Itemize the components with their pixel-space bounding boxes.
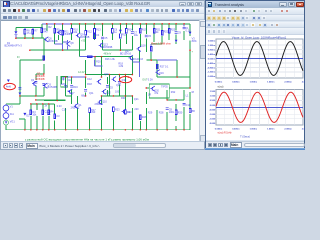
resistor C3 [54, 114, 56, 118]
transistor Q15 [112, 77, 116, 82]
resistor R23 [113, 107, 115, 111]
transistor Q9 [76, 33, 80, 38]
capacitor C10 [183, 103, 186, 105]
resistor R9 [54, 29, 56, 33]
wire: mid rail upper [95, 56, 132, 58]
svg-text:0.000m: 0.000m [208, 58, 215, 60]
svg-text:1.500m: 1.500m [267, 82, 274, 84]
svg-text:100: 100 [115, 91, 120, 94]
svg-text:BC546B: BC546B [80, 36, 90, 39]
wire: q6-q8 links [55, 40, 68, 50]
transistor Q19 [155, 70, 159, 75]
resistor R33 [150, 46, 152, 50]
svg-text:v(out): v(out) [218, 86, 224, 89]
resistor R8 [24, 30, 26, 34]
capacitor C13 [145, 35, 148, 37]
resistor R30 [175, 110, 177, 114]
svg-text:1.600m: 1.600m [208, 40, 215, 42]
wire: top rail left (lead colour) [42, 23, 71, 25]
resistor R26 [139, 115, 141, 119]
svg-text:2.5m: 2.5m [302, 129, 305, 131]
svg-text:C5: C5 [148, 35, 152, 38]
capacitor C5 [101, 37, 104, 39]
svg-text:0.000m: 0.000m [215, 129, 222, 131]
left vertical scrollbar [199, 20, 205, 141]
resistor R25 [168, 29, 170, 33]
svg-text:BC546B: BC546B [48, 40, 58, 43]
svg-text:TIP35: TIP35 [161, 85, 168, 88]
green net value labels [17, 40, 194, 82]
resistor R7 [32, 30, 34, 34]
svg-text:2.5m: 2.5m [302, 82, 305, 84]
svg-text:8R: 8R [192, 110, 195, 113]
right bottom bar [206, 141, 304, 148]
svg-text:-1.200m: -1.200m [207, 72, 215, 74]
svg-text:-0.400m: -0.400m [207, 62, 215, 65]
svg-text:1.200m: 1.200m [208, 45, 215, 47]
resistor R13 [94, 29, 96, 33]
svg-text:R25: R25 [171, 29, 176, 32]
right window bottom blue border [205, 148, 305, 151]
left caption buttons [179, 2, 186, 7]
annotation ellipse (mid node) [119, 77, 131, 83]
transistor Q13 [99, 43, 103, 48]
svg-text:BZX84B-6P7+3: BZX84B-6P7+3 [4, 45, 22, 48]
svg-text:C3: C3 [56, 115, 60, 118]
svg-text:80%: 80% [192, 40, 198, 43]
svg-text:2.000m: 2.000m [284, 82, 291, 84]
svg-text:47u: 47u [26, 32, 31, 35]
capacitor C2b [47, 113, 50, 115]
right title bar [206, 1, 304, 8]
resistor R6 [41, 28, 43, 32]
svg-text:VG1: VG1 [10, 120, 16, 123]
svg-text:R2: R2 [48, 26, 52, 29]
svg-text:+35: +35 [81, 40, 86, 43]
capacitor C20 [42, 83, 45, 85]
resistor R10 [71, 29, 73, 33]
svg-text:C9: C9 [178, 32, 182, 35]
svg-text:2N5401: 2N5401 [71, 106, 80, 109]
transistor Q8 [66, 41, 70, 46]
junctions (net nodes) [15, 23, 191, 131]
left title text [10, 1, 150, 6]
svg-text:BD140-16: BD140-16 [132, 58, 144, 61]
transistor Q6 [57, 30, 61, 35]
resistor R20 [94, 34, 96, 38]
capacitor C15 [18, 87, 21, 89]
wire: vertical nets 2 [16, 24, 190, 114]
source IG1 [3, 113, 9, 119]
transistor Q10 [98, 100, 102, 105]
svg-text:0.500m: 0.500m [232, 129, 239, 131]
svg-text:1.000: 1.000 [210, 96, 216, 98]
svg-text:IG1: IG1 [10, 113, 15, 116]
svg-text:68p: 68p [81, 94, 86, 97]
svg-text:R14: R14 [128, 29, 133, 32]
svg-text:R15: R15 [122, 34, 127, 37]
capacitor C17 [118, 81, 121, 83]
waveform [216, 92, 303, 122]
svg-text:Q16: Q16 [104, 73, 109, 76]
plot client area [206, 35, 304, 141]
transistor Q20 [150, 86, 154, 91]
svg-text:R16: R16 [73, 86, 78, 89]
transistor Q17 [129, 55, 133, 60]
transistor Q5 [44, 37, 48, 42]
svg-text:C10: C10 [186, 104, 191, 107]
transistor Q7 [68, 89, 72, 94]
wire: vertical nets [6, 34, 190, 130]
sub-circuit box output stage [149, 84, 169, 98]
svg-text:4.93: 4.93 [121, 79, 126, 82]
left schematic editor window frame [0, 0, 205, 150]
svg-text:R16 1.8k: R16 1.8k [105, 58, 116, 61]
svg-text:33: 33 [110, 87, 113, 90]
left title bar [1, 0, 204, 7]
capacitor C19 [34, 81, 37, 83]
svg-text:BC546B: BC546B [48, 86, 58, 89]
wire: bottom ground rail [19, 129, 190, 131]
svg-text:C5: C5 [104, 37, 108, 40]
resistor R19 [139, 29, 141, 33]
x axis labels [215, 82, 307, 84]
svg-text:Q7: Q7 [71, 92, 75, 95]
diode D2 [23, 113, 26, 116]
svg-text:+: + [192, 51, 194, 54]
svg-text:Q12: Q12 [106, 92, 111, 95]
wire: output links [95, 60, 178, 74]
resistor C6 [112, 29, 114, 33]
svg-text:V1: V1 [10, 105, 14, 108]
zero line [216, 58, 303, 60]
resistor R4 [48, 110, 50, 114]
svg-text:C11: C11 [67, 79, 72, 82]
svg-text:1R: 1R [148, 93, 151, 96]
svg-text:R28: R28 [159, 111, 164, 114]
svg-text:OUT: OUT [142, 79, 148, 82]
svg-text:-0.500: -0.500 [209, 109, 216, 111]
waveform [216, 42, 303, 76]
resistor R11 [62, 30, 64, 34]
capacitor C16 [106, 85, 109, 87]
resistor R5 [43, 56, 45, 60]
svg-text:Q15: Q15 [116, 84, 121, 87]
svg-text:-0.800m: -0.800m [207, 67, 215, 69]
svg-text:BD139-16: BD139-16 [120, 53, 132, 56]
resistor R21 [153, 29, 155, 33]
left tab bar [1, 141, 204, 149]
wire: mid lead upper [80, 56, 95, 58]
transistor Q14 [122, 109, 126, 114]
resistor R3 [30, 110, 32, 114]
svg-text:0.000: 0.000 [210, 105, 216, 107]
y axis labels [207, 40, 215, 78]
svg-text:Rl: Rl [192, 91, 195, 94]
resistor R16 (horizontal) [88, 56, 92, 58]
resistor R15 [120, 34, 122, 38]
svg-text:0.500: 0.500 [210, 100, 216, 102]
svg-text:0.800m: 0.800m [208, 49, 215, 51]
svg-text:1.8k: 1.8k [118, 65, 123, 68]
svg-text:2.000m: 2.000m [284, 129, 291, 131]
svg-text:10u: 10u [134, 34, 139, 37]
svg-text:v(out) R 1kHz: v(out) R 1kHz [218, 131, 233, 134]
capacitor C7 [131, 32, 134, 34]
svg-text:R7: R7 [34, 30, 38, 33]
svg-text:R29: R29 [148, 111, 153, 114]
capacitor C8 [166, 108, 169, 110]
svg-text:BC546B: BC546B [103, 46, 113, 49]
component value labels [4, 26, 197, 124]
sub-circuit box input stage [61, 77, 68, 87]
svg-text:100n: 100n [169, 111, 175, 114]
svg-text:Q14: Q14 [126, 111, 131, 114]
svg-text:1.500m: 1.500m [267, 129, 274, 131]
svg-text:463mV: 463mV [103, 53, 111, 56]
svg-text:Q8: Q8 [70, 42, 74, 45]
resistor R12 [85, 30, 87, 34]
svg-text:390: 390 [91, 111, 96, 114]
source V1 [3, 105, 9, 111]
svg-text:0.500m: 0.500m [232, 82, 239, 84]
svg-text:R30: R30 [178, 111, 183, 114]
diode D1 (zener) [14, 31, 17, 34]
svg-text:R4: R4 [50, 111, 54, 114]
wire: short component leads [6, 24, 184, 120]
right title text [215, 2, 244, 7]
x axis labels [215, 129, 307, 131]
transistor Q18 [137, 46, 141, 51]
transistor Q16 [97, 79, 101, 84]
svg-text:T (Secs): T (Secs) [240, 135, 250, 139]
svg-text:R12: R12 [87, 31, 92, 34]
svg-text:1.000m: 1.000m [250, 82, 257, 84]
wire: mid rail lower [86, 74, 133, 76]
svg-text:R18: R18 [87, 83, 92, 86]
capacitor F1 [183, 27, 186, 29]
svg-text:BC546B: BC546B [35, 78, 45, 81]
transistor Q1 [74, 103, 78, 108]
svg-text:R23: R23 [115, 108, 120, 111]
svg-text:0.400m: 0.400m [208, 53, 215, 56]
svg-text:0.2A: 0.2A [148, 79, 153, 82]
svg-text:220: 220 [134, 108, 139, 111]
resistor R27 [156, 64, 158, 68]
left toolbar row2 [1, 14, 204, 21]
svg-text:R26: R26 [142, 116, 147, 119]
svg-text:0.2A: 0.2A [186, 30, 191, 33]
probe arrow output [189, 32, 192, 35]
left toolbar row1 [1, 7, 204, 14]
svg-text:R32: R32 [171, 91, 176, 94]
svg-text:-2.000: -2.000 [209, 123, 216, 125]
svg-text:-1.500: -1.500 [209, 119, 216, 121]
zero line [216, 106, 303, 108]
transistor Q2 [32, 81, 36, 86]
probe arrow c6 [119, 30, 122, 33]
svg-text:L1: L1 [186, 94, 189, 97]
plot frame [216, 39, 303, 78]
svg-text:R22: R22 [164, 31, 169, 34]
svg-text:Q18: Q18 [141, 45, 146, 48]
wire: feedback net [44, 76, 66, 100]
capacitor C9 [175, 32, 178, 34]
transistor Q3 [43, 83, 47, 88]
resistor R14 [126, 29, 128, 33]
svg-text:R27 0.1: R27 0.1 [160, 66, 169, 69]
svg-text:R19: R19 [142, 29, 147, 32]
resistor R31 [189, 108, 191, 112]
svg-text:Q11: Q11 [89, 92, 94, 95]
schematic canvas [1, 20, 199, 141]
svg-text:R20: R20 [96, 61, 101, 64]
svg-text:Rout 1.06M ohm: Rout 1.06M ohm [151, 41, 172, 45]
svg-text:-1.600m: -1.600m [207, 76, 215, 78]
transistor Q12 [102, 89, 106, 94]
svg-text:4mV: 4mV [6, 86, 11, 89]
right app icon [208, 2, 213, 7]
svg-text:Q2: Q2 [31, 79, 35, 82]
capacitor C11 [64, 85, 67, 87]
svg-text:Q21: Q21 [134, 98, 139, 101]
svg-text:C4: C4 [96, 34, 100, 37]
svg-text:1n: 1n [44, 105, 47, 108]
svg-text:Q19: Q19 [159, 72, 164, 75]
resistor R24 [125, 110, 127, 114]
red highlighted labels Q2 [35, 73, 45, 81]
svg-text:220u: 220u [61, 83, 67, 86]
svg-text:0.000m: 0.000m [215, 82, 222, 84]
svg-text:2N5401: 2N5401 [95, 103, 104, 106]
transient analysis window frame [205, 0, 305, 150]
plot frame [216, 90, 303, 125]
svg-text:BC546B: BC546B [61, 33, 71, 36]
wire: mid lead row [62, 76, 86, 78]
capacitor C12 [84, 89, 87, 91]
y axis labels [209, 91, 216, 125]
wire: horizontal links [6, 44, 190, 130]
source VG1 [3, 120, 8, 125]
svg-text:840: 840 [43, 30, 48, 33]
svg-text:R31: R31 [121, 97, 126, 100]
svg-text:12.4V: 12.4V [78, 71, 85, 74]
svg-text:IN: IN [17, 56, 20, 59]
resistor R17 [89, 108, 91, 112]
capacitor C18 [70, 85, 73, 87]
resistor R22 [161, 30, 163, 34]
svg-text:1.000m: 1.000m [250, 129, 257, 131]
annotation ellipse (input node) [4, 83, 16, 89]
wire: top supply rail [71, 23, 190, 25]
left app icon [3, 1, 10, 8]
probe arrow v3 [175, 40, 178, 43]
svg-text:C14: C14 [62, 108, 67, 111]
wire: left bias loop [16, 27, 44, 38]
probe arrow input [7, 80, 10, 83]
svg-text:R13: R13 [96, 29, 101, 32]
resistor C2 [42, 110, 44, 114]
probe arrow node A [19, 92, 22, 95]
right caption buttons [279, 2, 287, 7]
svg-text:C12: C12 [87, 78, 92, 81]
svg-text:1.500: 1.500 [210, 91, 216, 93]
svg-text:-1.000: -1.000 [209, 114, 216, 116]
